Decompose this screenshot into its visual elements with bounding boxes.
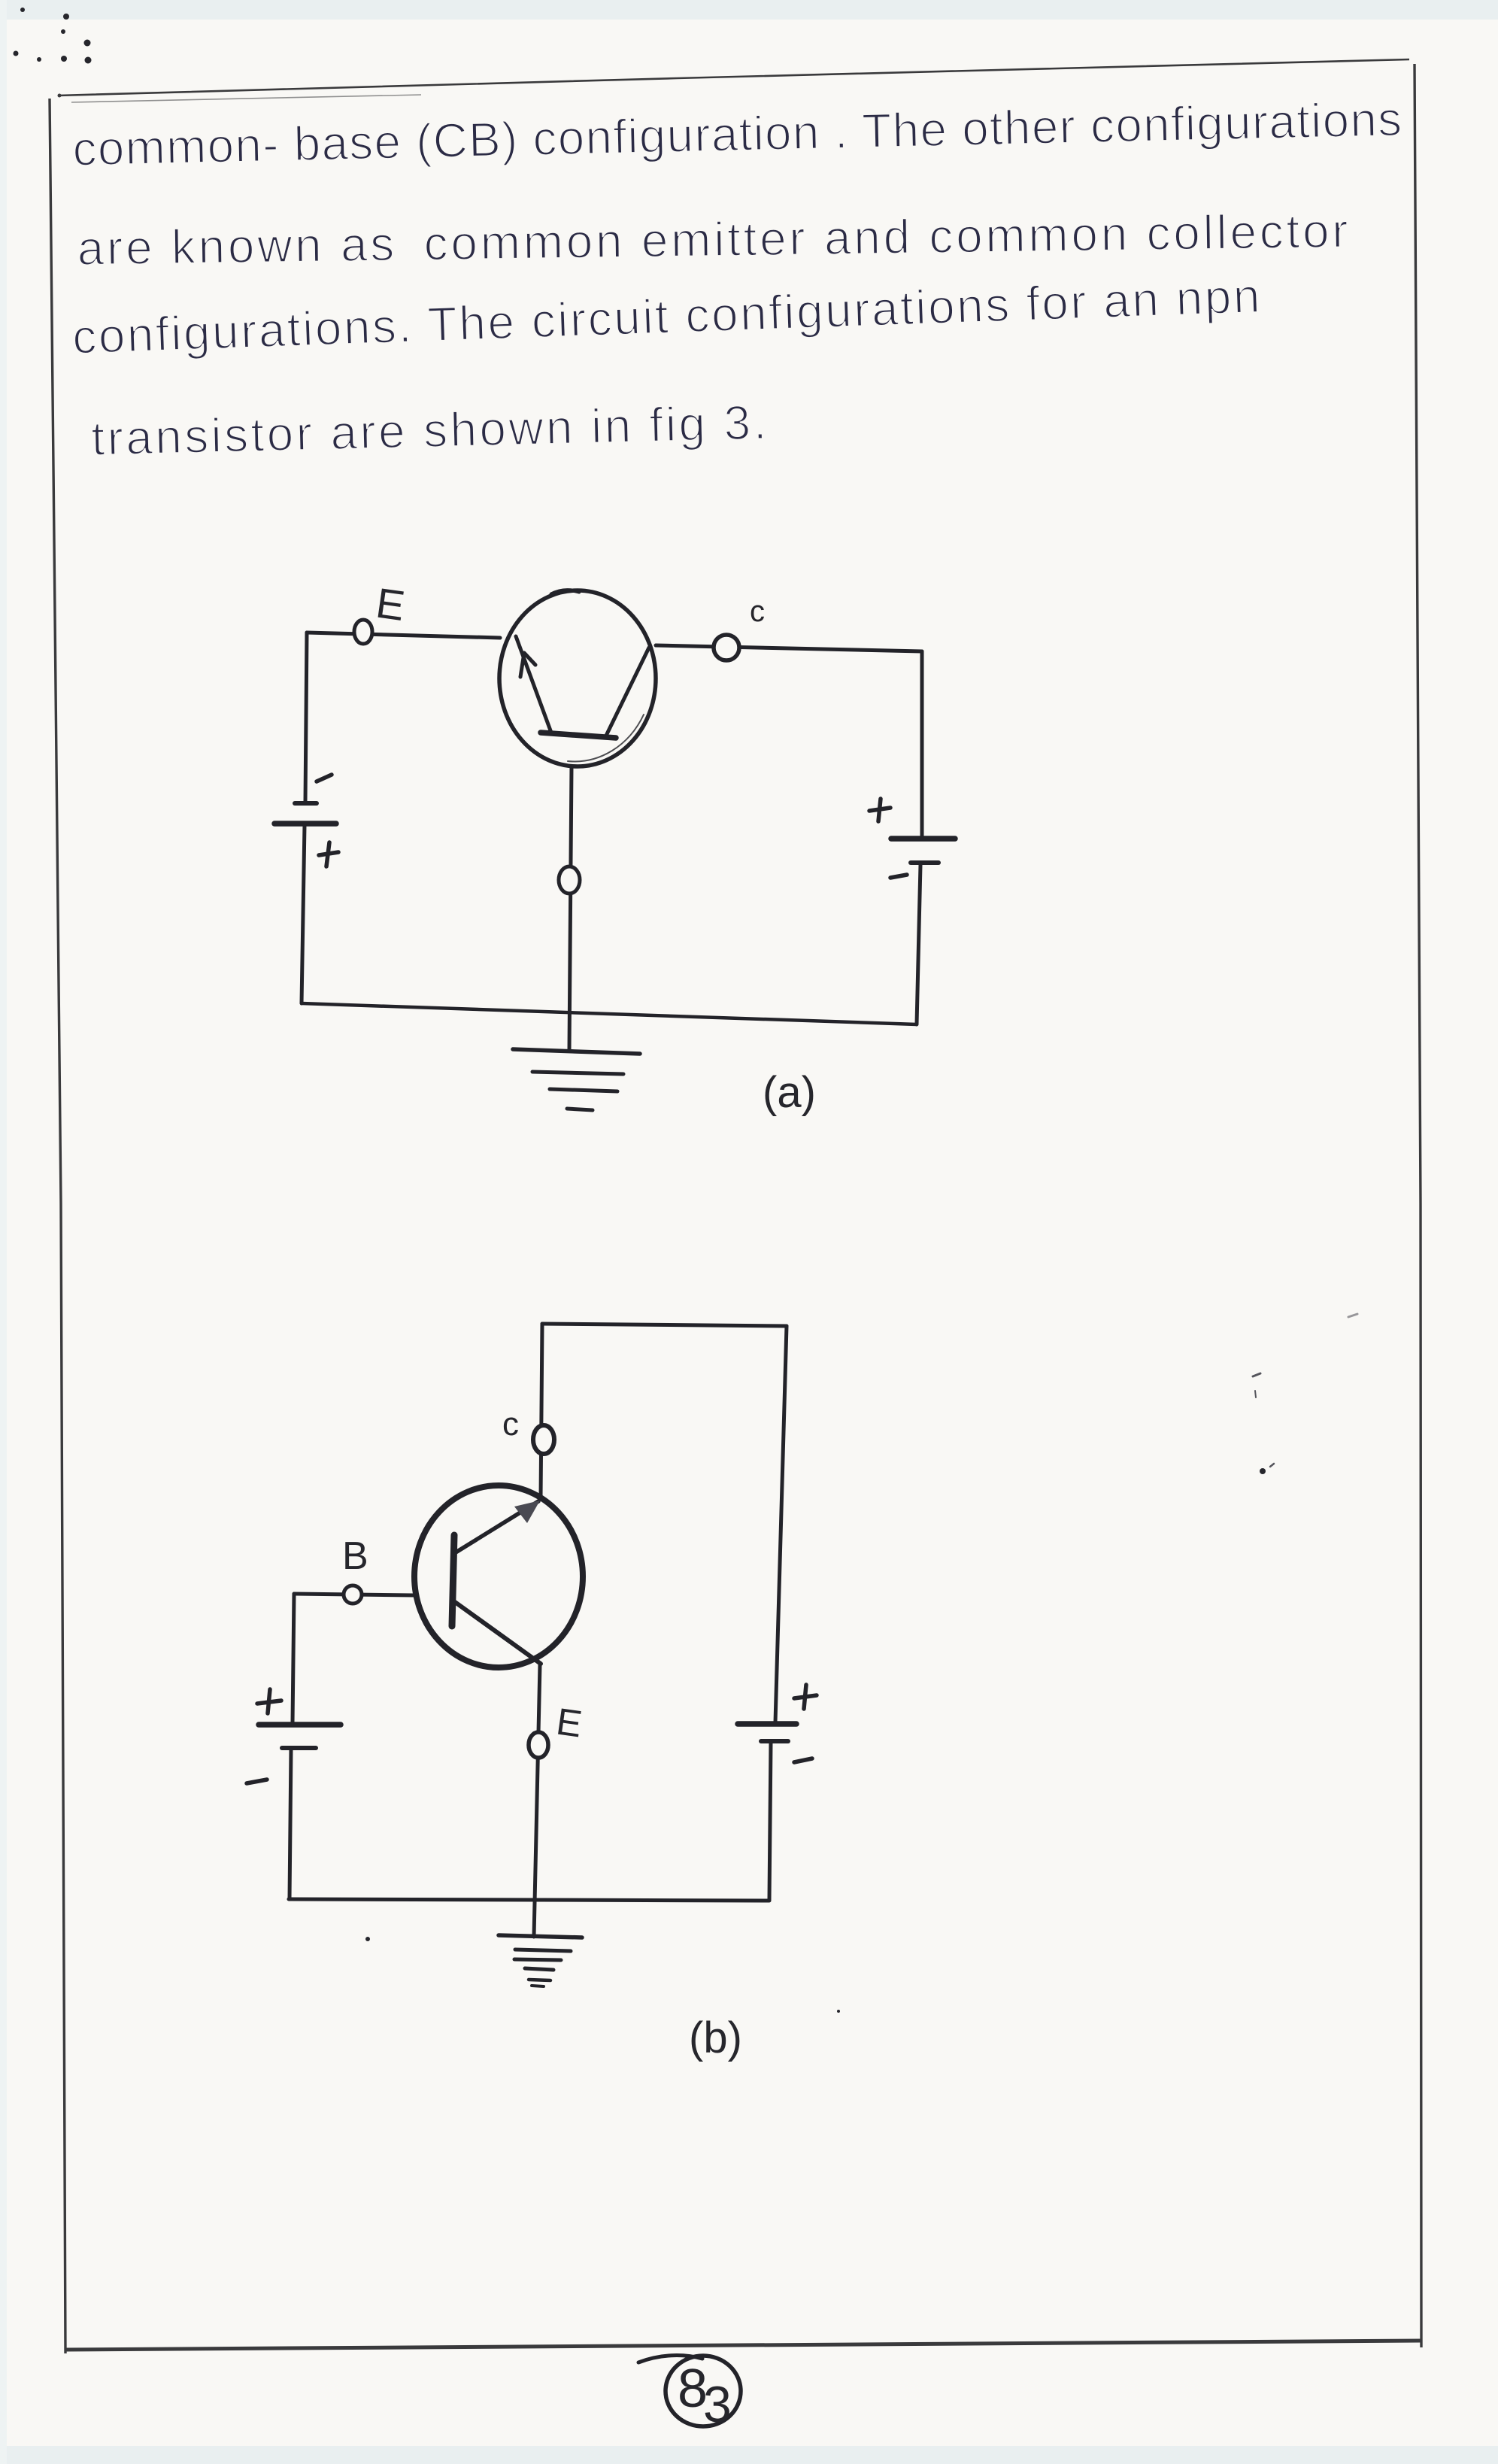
svg-text:transistor are shown in fig 3.: transistor are shown in fig 3. [91, 395, 767, 466]
wire base vertical (a) [569, 766, 572, 1051]
battery V4 right (b) [738, 1685, 817, 1762]
node label E (b) [553, 1700, 584, 1745]
wire left vertical lower (b) [290, 1749, 291, 1899]
figure label (a) [763, 1068, 816, 1117]
transistor Q2 (b) [414, 1485, 583, 1667]
wire E horizontal (a) [307, 633, 500, 638]
node label C (b) [502, 1406, 519, 1443]
wire bottom (b) [289, 1899, 769, 1901]
ground (b) [499, 1935, 582, 1986]
wire top (b) [542, 1324, 787, 1326]
terminal C circle (b) [533, 1425, 554, 1454]
wire left vertical upper (b) [293, 1594, 294, 1723]
terminal E circle (b) [529, 1732, 548, 1758]
svg-text:are known as common emitter an: are known as common emitter and common c… [77, 203, 1348, 275]
wire right vertical upper (a) [920, 651, 924, 837]
wire bottom (a) [302, 1003, 917, 1024]
wire left vertical lower (a) [302, 825, 305, 1003]
paragraph text line 1 [72, 92, 1402, 176]
svg-text:c: c [502, 1406, 519, 1443]
arrowhead on collector (b) [514, 1501, 540, 1523]
battery V2 right (a) [869, 799, 955, 878]
paragraph text line 3 [71, 269, 1261, 364]
battery V3 left (b) [247, 1689, 341, 1783]
wire right vertical upper (b) [775, 1326, 787, 1722]
wire left vertical upper (a) [305, 633, 307, 802]
wire B horizontal (b) [294, 1594, 414, 1595]
svg-text:configurations. The circuit co: configurations. The circuit configuratio… [71, 269, 1261, 364]
terminal B circle (b) [344, 1586, 362, 1604]
svg-text:3: 3 [703, 2376, 732, 2433]
wire C vertical (b) [541, 1324, 542, 1498]
node label B (b) [342, 1534, 368, 1578]
figure label (b) [689, 2013, 742, 2062]
wire right vertical lower (b) [769, 1743, 771, 1900]
paragraph text line 2 [77, 203, 1348, 275]
node label E (a) [373, 578, 408, 630]
svg-text:(a): (a) [763, 1068, 816, 1117]
paragraph text line 4 [91, 395, 767, 466]
transistor Q1 (a) [499, 590, 656, 766]
svg-text:E: E [373, 578, 408, 630]
wire C horizontal (a) [656, 645, 922, 651]
svg-text:B: B [342, 1534, 368, 1578]
svg-text:(b): (b) [689, 2013, 742, 2062]
terminal C circle (a) [714, 635, 739, 660]
page number 83 [638, 2356, 741, 2426]
svg-text:common- base (CB) configuratio: common- base (CB) configuration . The ot… [72, 92, 1402, 176]
terminal E circle (a) [354, 620, 372, 644]
node label C (a) [750, 595, 765, 628]
ground (a) [513, 1049, 640, 1110]
wire right vertical lower (a) [917, 865, 920, 1024]
terminal B circle (a) [559, 866, 580, 894]
wire E vertical (b) [534, 1664, 540, 1937]
battery V1 left (a) [274, 775, 338, 866]
svg-text:E: E [553, 1700, 584, 1745]
svg-text:c: c [750, 595, 765, 628]
